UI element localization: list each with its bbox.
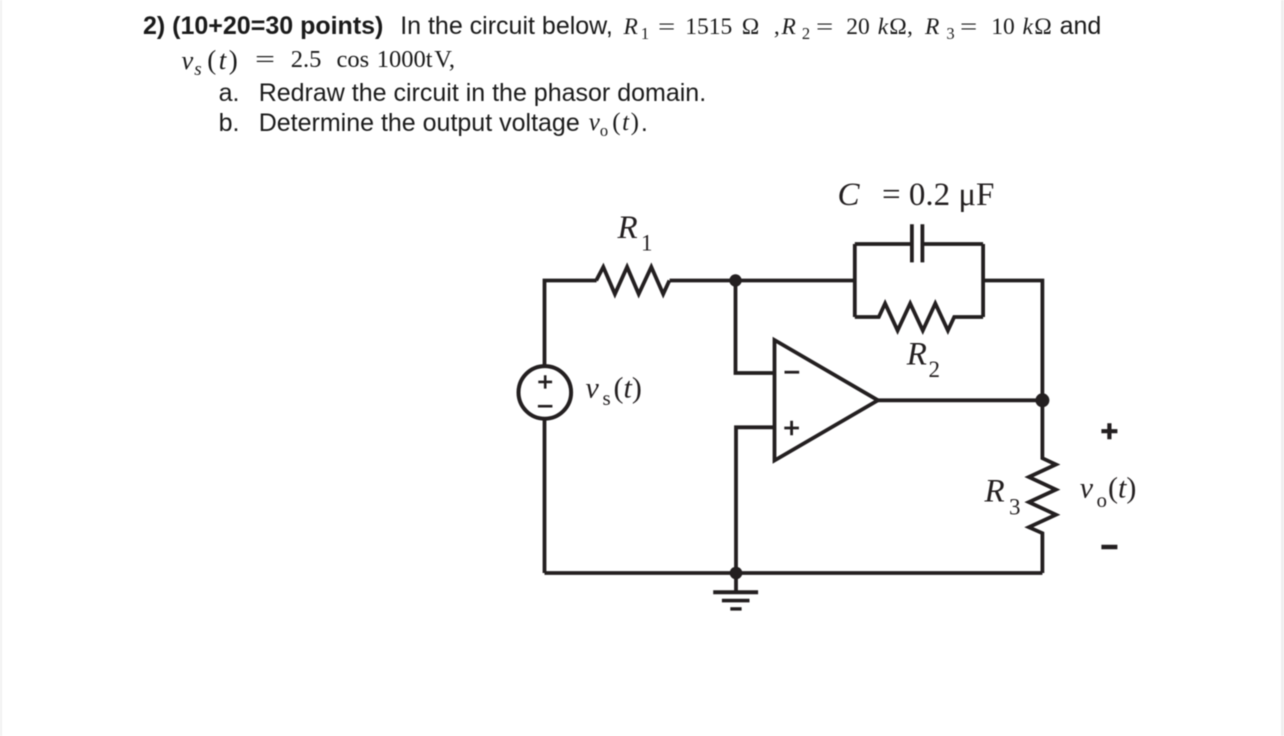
svg-text:3: 3 [1009, 495, 1021, 520]
svg-text:1: 1 [641, 231, 653, 256]
svg-text:= 0.2 μF: = 0.2 μF [882, 177, 994, 213]
svg-text:(t): (t) [614, 372, 642, 405]
svg-text:R: R [984, 474, 1005, 510]
svg-text:(t): (t) [1108, 472, 1136, 505]
svg-text:s: s [603, 386, 611, 410]
svg-text:2: 2 [929, 357, 941, 382]
svg-text:R: R [617, 210, 638, 246]
svg-text:v: v [586, 372, 600, 405]
svg-text:o: o [1097, 488, 1108, 512]
svg-text:R: R [906, 337, 927, 373]
svg-text:v: v [1080, 472, 1094, 505]
svg-text:C: C [838, 177, 861, 213]
